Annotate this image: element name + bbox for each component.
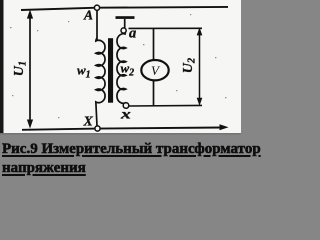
terminal a circle bbox=[121, 28, 126, 33]
caption line 2 bbox=[2, 161, 86, 176]
label U2 bbox=[181, 57, 197, 73]
primary winding w1 bbox=[96, 38, 105, 126]
arrow right end of bottom bus bbox=[220, 124, 229, 130]
secondary winding w2 bbox=[117, 33, 126, 103]
svg-text:x: x bbox=[120, 106, 132, 122]
wire top bus A bbox=[21, 7, 228, 10]
svg-text:X: X bbox=[83, 114, 94, 129]
node A terminal circle bbox=[94, 5, 99, 10]
terminal x circle bbox=[123, 103, 129, 109]
wire from a to U2 branch bbox=[129, 27, 203, 29]
scan paper background bbox=[0, 0, 241, 133]
paper speckles bbox=[10, 14, 226, 118]
caption line 1 bbox=[2, 142, 261, 157]
wire voltmeter top bbox=[153, 29, 155, 60]
terminal bar above a bbox=[116, 16, 135, 28]
wire from x to U2 branch bbox=[129, 104, 202, 107]
svg-text:A: A bbox=[83, 8, 93, 23]
label U1 bbox=[12, 61, 28, 76]
voltage arrow U2 bbox=[197, 27, 203, 106]
node X terminal circle bbox=[95, 126, 100, 131]
wire voltmeter bottom bbox=[153, 80, 155, 106]
wire from node A down to winding w1 bbox=[96, 10, 98, 41]
voltmeter V bbox=[141, 60, 168, 80]
transformer core bbox=[108, 38, 113, 103]
wire bottom bus X bbox=[22, 128, 222, 130]
voltage arrow U1 bbox=[27, 10, 33, 129]
